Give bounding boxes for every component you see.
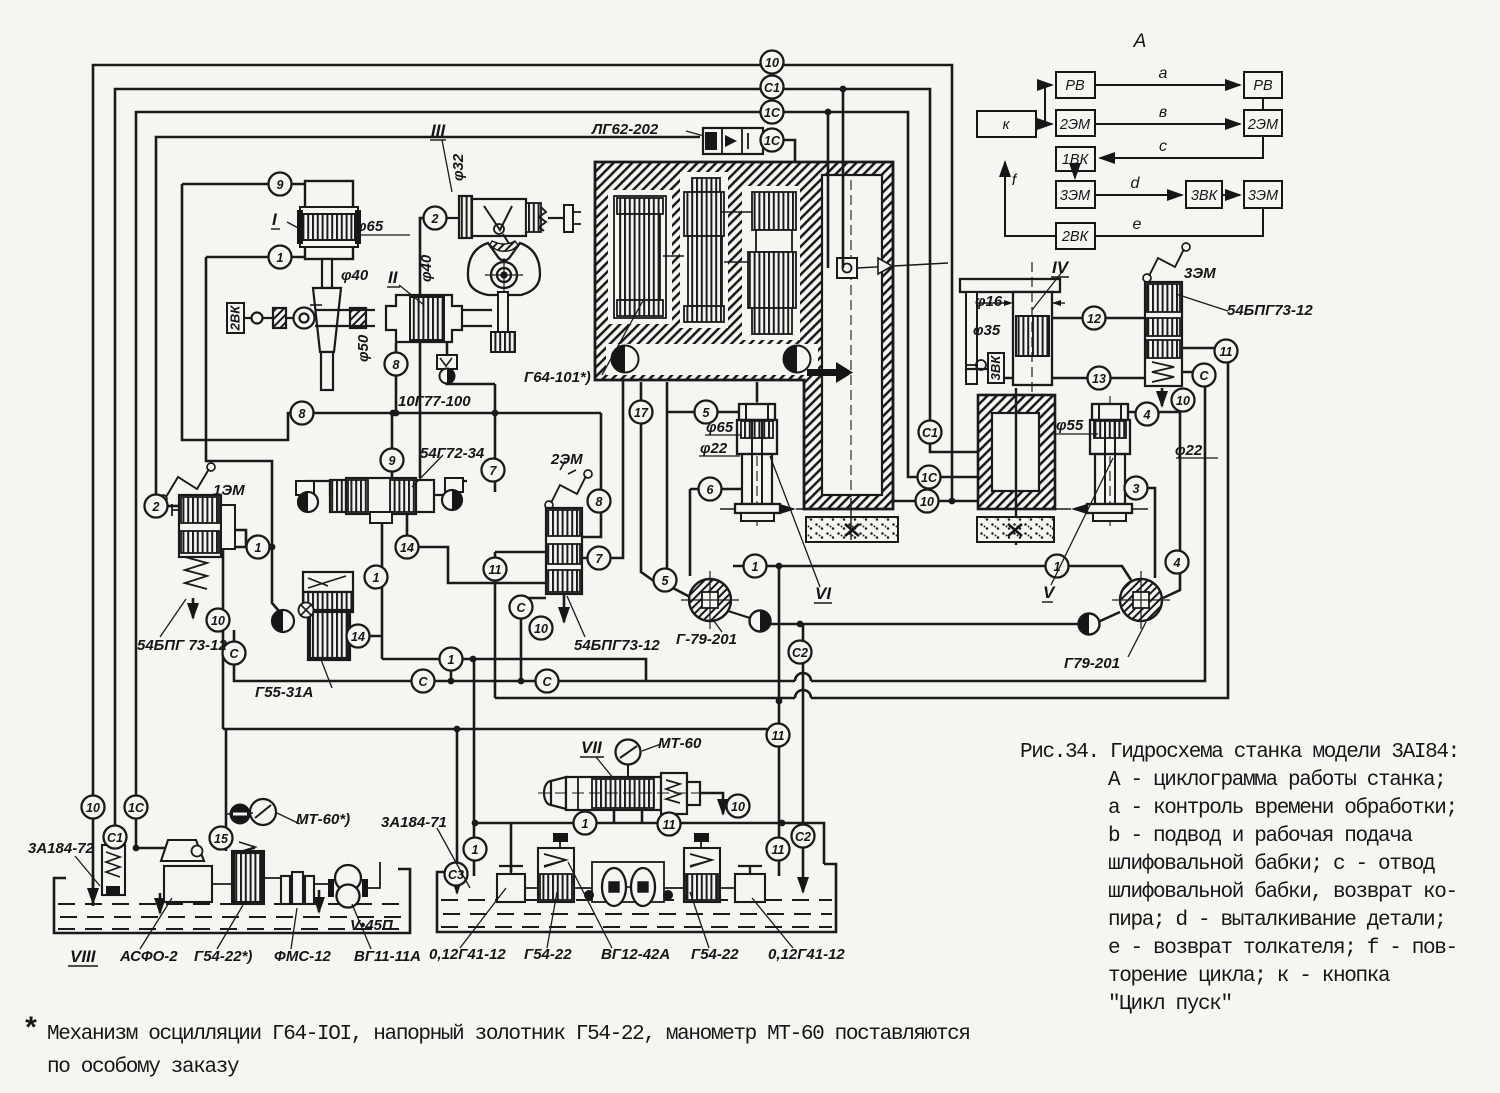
svg-text:С1: С1 [764, 81, 780, 95]
svg-text:III: III [431, 121, 446, 140]
svg-text:IV: IV [1052, 258, 1070, 277]
svg-text:2: 2 [431, 212, 439, 226]
svg-text:10: 10 [86, 801, 100, 815]
svg-text:φ40: φ40 [418, 254, 435, 282]
svg-text:VII: VII [581, 738, 603, 757]
svg-text:С2: С2 [792, 646, 808, 660]
svg-text:d: d [1131, 175, 1141, 192]
svg-text:φ65: φ65 [356, 218, 384, 235]
svg-text:4: 4 [1143, 408, 1151, 422]
svg-text:*: * [22, 1014, 39, 1048]
svg-text:РВ: РВ [1065, 78, 1085, 94]
svg-text:торение цикла; к - кнопка: торение цикла; к - кнопка [1108, 965, 1390, 988]
svg-text:15: 15 [214, 832, 229, 846]
svg-text:φ22: φ22 [1175, 442, 1203, 459]
svg-text:2ВК: 2ВК [1061, 229, 1090, 245]
svg-text:10: 10 [920, 495, 934, 509]
svg-text:f: f [1012, 172, 1018, 189]
svg-text:3ЭМ: 3ЭМ [1060, 188, 1091, 204]
svg-text:Г54-22: Г54-22 [524, 946, 572, 963]
svg-text:1ЭМ: 1ЭМ [213, 482, 245, 499]
svg-text:2ЭМ: 2ЭМ [550, 451, 583, 468]
svg-text:φ16: φ16 [975, 293, 1003, 310]
svg-text:1С: 1С [764, 134, 781, 148]
svg-text:С1: С1 [922, 426, 938, 440]
svg-text:А - циклограмма работы станка;: А - циклограмма работы станка; [1108, 769, 1446, 792]
svg-text:3ВК: 3ВК [1191, 188, 1219, 204]
svg-text:b - подвод и рабочая подача: b - подвод и рабочая подача [1108, 825, 1413, 848]
svg-text:Г-79-201: Г-79-201 [676, 631, 737, 648]
svg-text:φ35: φ35 [973, 322, 1001, 339]
svg-text:2ВК: 2ВК [228, 305, 243, 332]
svg-text:1С: 1С [128, 801, 145, 815]
svg-text:5: 5 [703, 406, 711, 420]
svg-text:2ЭМ: 2ЭМ [1247, 117, 1279, 133]
svg-text:ВГ11-11А: ВГ11-11А [354, 948, 421, 965]
svg-text:С: С [542, 675, 552, 689]
svg-text:VIII: VIII [70, 947, 97, 966]
svg-text:6: 6 [707, 483, 715, 497]
svg-text:54БПГ73-12: 54БПГ73-12 [574, 637, 660, 654]
svg-text:11: 11 [663, 818, 676, 832]
svg-text:12: 12 [1087, 312, 1101, 326]
svg-text:V•45П: V•45П [350, 917, 394, 934]
svg-text:14: 14 [351, 630, 365, 644]
svg-text:1: 1 [472, 843, 479, 857]
svg-text:11: 11 [772, 843, 785, 857]
svg-text:0,12Г41-12: 0,12Г41-12 [768, 946, 845, 963]
svg-text:С: С [516, 601, 526, 615]
svg-text:е - возврат толкателя; f - пов: е - возврат толкателя; f - пов- [1108, 937, 1457, 960]
svg-text:0,12Г41-12: 0,12Г41-12 [429, 946, 506, 963]
svg-text:а: а [1159, 65, 1168, 82]
svg-text:3: 3 [1133, 482, 1140, 496]
svg-text:по особому заказу: по особому заказу [47, 1056, 239, 1079]
svg-text:4: 4 [1173, 556, 1181, 570]
svg-text:Г54-22: Г54-22 [691, 946, 739, 963]
svg-text:АСФО-2: АСФО-2 [119, 948, 178, 965]
svg-text:5: 5 [662, 574, 670, 588]
svg-text:Г79-201: Г79-201 [1064, 655, 1120, 672]
svg-text:шлифовальной бабки; с - отвод: шлифовальной бабки; с - отвод [1108, 853, 1435, 876]
svg-text:Механизм осцилляции Г64-IOI, н: Механизм осцилляции Г64-IOI, напорный зо… [47, 1023, 970, 1046]
svg-text:Рис.34. Гидросхема станка моде: Рис.34. Гидросхема станка модели 3АI84: [1020, 741, 1459, 764]
svg-text:Г54-22*): Г54-22*) [194, 948, 252, 965]
svg-text:1: 1 [448, 653, 455, 667]
svg-text:1: 1 [582, 817, 589, 831]
svg-text:МТ-60*): МТ-60*) [296, 811, 350, 828]
svg-text:1С: 1С [921, 471, 938, 485]
svg-text:VI: VI [815, 584, 832, 603]
svg-text:1: 1 [255, 541, 262, 555]
svg-text:7: 7 [596, 552, 604, 566]
svg-text:1: 1 [373, 571, 380, 585]
svg-text:а - контроль времени обработки: а - контроль времени обработки; [1108, 797, 1457, 820]
svg-text:1: 1 [277, 251, 284, 265]
svg-text:А: А [1133, 31, 1147, 52]
svg-text:е: е [1133, 216, 1142, 233]
svg-text:8: 8 [393, 358, 400, 372]
svg-text:17: 17 [634, 406, 649, 420]
svg-text:11: 11 [1220, 345, 1233, 359]
svg-text:1ВК: 1ВК [1062, 152, 1090, 168]
svg-text:ЛГ62-202: ЛГ62-202 [591, 121, 659, 138]
svg-text:С1: С1 [107, 831, 123, 845]
svg-text:в: в [1159, 104, 1167, 121]
svg-text:1С: 1С [764, 106, 781, 120]
svg-text:РВ: РВ [1253, 78, 1273, 94]
svg-text:Г55-31А: Г55-31А [255, 684, 313, 701]
svg-text:II: II [388, 268, 399, 287]
svg-text:I: I [272, 210, 278, 229]
svg-text:ВГ12-42А: ВГ12-42А [601, 946, 670, 963]
svg-text:13: 13 [1092, 372, 1106, 386]
svg-text:V: V [1043, 583, 1056, 602]
svg-text:φ32: φ32 [450, 153, 467, 181]
svg-text:10: 10 [211, 614, 225, 628]
svg-text:3А184-71: 3А184-71 [381, 814, 447, 831]
svg-text:С: С [229, 647, 239, 661]
svg-text:54БПГ73-12: 54БПГ73-12 [1227, 302, 1313, 319]
svg-text:11: 11 [772, 729, 785, 743]
svg-text:С2: С2 [795, 830, 811, 844]
svg-text:3ЭМ: 3ЭМ [1248, 188, 1279, 204]
svg-text:φ22: φ22 [700, 440, 728, 457]
svg-text:С: С [1199, 369, 1209, 383]
svg-text:φ65: φ65 [706, 419, 734, 436]
svg-text:10: 10 [731, 800, 745, 814]
svg-text:с: с [1159, 138, 1167, 155]
svg-text:2: 2 [152, 500, 160, 514]
svg-text:2ЭМ: 2ЭМ [1059, 117, 1091, 133]
svg-text:10: 10 [1176, 394, 1190, 408]
svg-text:ФМС-12: ФМС-12 [274, 948, 332, 965]
svg-text:3А184-72: 3А184-72 [28, 840, 95, 857]
svg-text:шлифовальной бабки, возврат ко: шлифовальной бабки, возврат ко- [1108, 881, 1457, 904]
svg-text:10Г77-100: 10Г77-100 [398, 393, 471, 410]
svg-text:С3: С3 [448, 868, 464, 882]
svg-text:10: 10 [534, 622, 548, 636]
svg-text:к: к [1003, 117, 1011, 133]
svg-text:МТ-60: МТ-60 [658, 735, 702, 752]
svg-text:φ55: φ55 [1056, 417, 1084, 434]
svg-text:φ50: φ50 [355, 334, 372, 362]
svg-text:3ВК: 3ВК [988, 355, 1003, 381]
svg-text:11: 11 [489, 563, 502, 577]
svg-text:10: 10 [765, 56, 779, 70]
svg-text:14: 14 [400, 541, 414, 555]
svg-text:"Цикл пуск": "Цикл пуск" [1108, 993, 1232, 1016]
svg-text:9: 9 [389, 454, 396, 468]
svg-text:54Г72-34: 54Г72-34 [420, 445, 485, 462]
svg-text:54БПГ 73-12: 54БПГ 73-12 [137, 637, 227, 654]
svg-text:1: 1 [752, 560, 759, 574]
svg-text:Г64-101*): Г64-101*) [524, 369, 591, 386]
svg-text:8: 8 [299, 407, 306, 421]
svg-text:7: 7 [490, 464, 498, 478]
svg-text:φ40: φ40 [341, 267, 369, 284]
svg-text:пира; d - выталкивание детали;: пира; d - выталкивание детали; [1108, 909, 1446, 932]
svg-text:8: 8 [596, 495, 603, 509]
svg-text:3ЭМ: 3ЭМ [1184, 265, 1216, 282]
svg-text:9: 9 [277, 178, 284, 192]
svg-text:С: С [418, 675, 428, 689]
